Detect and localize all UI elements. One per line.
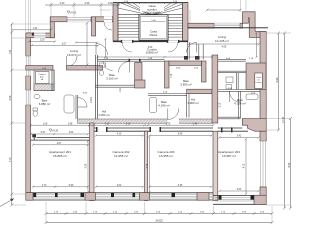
top-right step wall (242, 12, 265, 38)
svg-text:2.62: 2.62 (117, 185, 122, 187)
svg-text:3.42: 3.42 (237, 136, 242, 138)
svg-text:4.35: 4.35 (178, 185, 183, 187)
svg-text:3.850 m²: 3.850 m² (180, 83, 191, 87)
dimension chain bottom 1 (45, 212, 274, 215)
vertical dim room 204 (245, 138, 247, 195)
washbasin baie left (34, 94, 40, 99)
svg-text:0.97: 0.97 (41, 132, 46, 134)
dimension chain right vertical 1 (277, 32, 280, 132)
dim row above 201 wall (30, 133, 89, 135)
svg-text:6.880 m²: 6.880 m² (39, 102, 50, 106)
label curte de lumina (256, 76, 263, 84)
svg-text:liftului: liftului (150, 33, 158, 37)
level marker corridor (67, 11, 77, 15)
svg-text:13.987 m²: 13.987 m² (222, 154, 236, 158)
svg-text:8.52: 8.52 (288, 162, 291, 167)
rotated dim text walls (86, 73, 246, 168)
wall under left living east part (67, 66, 103, 71)
svg-text:3.163 m²: 3.163 m² (106, 77, 117, 81)
stair block top wall (113, 2, 188, 4)
room label living left (67, 49, 81, 57)
window in top wall right wing (214, 23, 240, 29)
center pink wall south (187, 89, 212, 94)
room label coridor (146, 47, 158, 54)
elevator core box (139, 15, 168, 41)
wall baie-hol left (76, 95, 78, 119)
room label camera 202 (112, 150, 129, 158)
dimension texts bottom (54, 211, 265, 222)
room label apartament 201 (49, 150, 71, 158)
window right wall (260, 141, 267, 187)
right wing room divider (237, 73, 239, 90)
svg-text:2.15: 2.15 (220, 102, 222, 107)
window left wall upper (25, 56, 31, 76)
svg-text:1.40: 1.40 (193, 123, 198, 125)
stair block left wall (113, 3, 118, 42)
lower rooms top wall 201 (31, 134, 90, 140)
svg-text:3.07: 3.07 (62, 42, 67, 45)
stair outer boundary (118, 3, 183, 41)
window jamb step wall (32, 33, 34, 36)
bathtub baie left (64, 95, 74, 113)
wc baie left (33, 108, 38, 116)
svg-text:16.865 m²: 16.865 m² (53, 154, 67, 158)
stair treads right flight (168, 15, 183, 41)
wall right of deb (52, 70, 54, 91)
vertical dim room 203 left (148, 136, 150, 193)
vestibule door jambs (184, 56, 200, 60)
door arc lower center (168, 109, 179, 120)
svg-text:5.26: 5.26 (147, 163, 149, 168)
svg-text:scarilor: scarilor (147, 8, 157, 12)
window jamb blocks bottom (33, 193, 254, 200)
wall under left living pink part (26, 66, 53, 71)
svg-text:2.20: 2.20 (60, 2, 65, 5)
svg-text:5.45: 5.45 (178, 134, 183, 136)
svg-text:8.885 m²: 8.885 m² (146, 51, 158, 55)
room label baie left (39, 99, 50, 107)
svg-text:7.10: 7.10 (9, 157, 12, 162)
bottom wall pier right corner (254, 195, 266, 204)
wc baie 3163 (100, 70, 104, 75)
dimension chain bottom 2 (45, 221, 274, 224)
svg-text:14.955 m²: 14.955 m² (114, 154, 128, 158)
door gap corridor bottom (168, 119, 180, 124)
right wing hall wall (218, 71, 246, 73)
door gap top wall near stair (104, 17, 112, 22)
room label apartament 204 (218, 150, 240, 158)
dim line bottom room 203 (148, 186, 212, 188)
room label hol left (98, 110, 109, 118)
svg-text:0.13: 0.13 (126, 123, 131, 125)
dimension chain right vertical 3 (289, 117, 292, 210)
extension lines right (266, 33, 291, 205)
wall 201-202 (90, 123, 95, 201)
svg-text:+9.35: +9.35 (52, 130, 59, 133)
svg-text:1.91: 1.91 (120, 87, 122, 92)
bottom wall pier 203 (197, 193, 209, 201)
room label baie 4240 (158, 100, 169, 108)
bathtub baie 4240 (150, 98, 157, 113)
top wall left wing (50, 17, 113, 22)
room label baie center 3850 (180, 79, 191, 87)
svg-text:16.955 m²: 16.955 m² (159, 154, 173, 158)
svg-text:14.625: 14.625 (155, 220, 163, 223)
light shaft curte de lumina (255, 73, 263, 89)
extra jamb blocks bottom wall (55, 193, 135, 198)
svg-text:4.62: 4.62 (237, 189, 242, 191)
stair treads left flight (118, 15, 139, 41)
svg-text:16.070 m²: 16.070 m² (67, 53, 81, 57)
dim line inside living left (30, 44, 100, 47)
door arc baie left (78, 98, 87, 108)
svg-text:2.13: 2.13 (105, 123, 110, 125)
svg-text:4.164 m²: 4.164 m² (234, 102, 245, 106)
dim vertical near living east wall (104, 38, 106, 58)
dimension texts top (60, 2, 113, 5)
extra ticks chain bottom 1 (65, 212, 256, 215)
right exterior wall lower (260, 187, 266, 205)
wall 202-203 (144, 131, 147, 200)
sink baie 3163 (100, 63, 106, 67)
top-left step wall vertical (50, 17, 54, 38)
room label camera 203 (157, 150, 174, 158)
svg-text:1.76: 1.76 (171, 73, 173, 78)
right exterior wall (260, 31, 266, 141)
svg-text:2.73: 2.73 (42, 185, 47, 187)
dim line under step band (28, 40, 56, 42)
svg-text:9.68: 9.68 (276, 77, 279, 82)
corridor south wall left (98, 59, 165, 62)
corridor south wall right wing (218, 60, 246, 62)
vertical dim room 201 right (87, 140, 89, 193)
svg-text:1.09: 1.09 (43, 123, 48, 125)
dim line bottom room 202 (95, 186, 144, 188)
wall 203-204 (213, 131, 218, 200)
bottom wall right wing lines (213, 196, 266, 205)
dimension chain left vertical (10, 23, 13, 207)
svg-text:4.15: 4.15 (244, 163, 246, 168)
dimension chain top (45, 3, 120, 6)
svg-text:17.38: 17.38 (282, 116, 285, 123)
door arc corridor right (187, 43, 197, 53)
corridor entry door arc (104, 62, 113, 71)
svg-text:4.87: 4.87 (57, 143, 62, 145)
room label living right (215, 35, 229, 43)
dim line room 201 (32, 144, 89, 146)
svg-text:1.98: 1.98 (68, 123, 73, 125)
top-left step wall horizontal (26, 33, 55, 38)
bottom wall pier center (139, 193, 149, 201)
wall right wing mid (218, 90, 260, 92)
wall baie4240 north (148, 94, 187, 96)
bottom wall lines (26, 193, 213, 200)
level marker room201 (49, 129, 59, 133)
svg-text:4.05: 4.05 (222, 46, 227, 49)
masonry zone light well (246, 63, 266, 89)
svg-text:2.009: 2.009 (91, 96, 93, 102)
svg-text:5.26: 5.26 (86, 163, 88, 168)
svg-text:4.10: 4.10 (117, 134, 122, 136)
door arc corridor to living (96, 44, 108, 56)
vestibule walls right of corridor (188, 42, 204, 60)
wall face extension line right (188, 27, 268, 29)
door arc baie 3163 (119, 62, 130, 73)
dim line living east (75, 41, 98, 43)
lower rooms top wall center (94, 128, 213, 131)
dim vertical right living (255, 32, 257, 58)
wall west of baie3163 (95, 55, 97, 119)
bottom wall pier 201-202 (85, 193, 96, 201)
room label hol center (187, 98, 198, 106)
dim vertical living left (86, 22, 89, 67)
living east wall pink upper (92, 17, 96, 36)
svg-text:5.26: 5.26 (9, 95, 12, 100)
dim line to step corner (12, 28, 53, 31)
dim texts above stair (124, 1, 178, 3)
corridor bottom hatched wall (78, 119, 213, 123)
label casa scarilor (140, 4, 164, 12)
extension lines top right (100, 0, 247, 23)
shaft pink center (135, 62, 142, 85)
door arc top wall gap (104, 22, 112, 30)
right wing fixtures (226, 77, 233, 89)
corridor dim line (96, 56, 213, 58)
interior dimension texts row (43, 123, 198, 125)
door gaps center wall (96, 127, 161, 132)
stair bottom wall (113, 40, 188, 43)
stair block right wall (183, 3, 189, 42)
svg-text:2.75: 2.75 (166, 123, 171, 125)
svg-text:1.960 m²: 1.960 m² (187, 101, 198, 105)
door arc right wing (230, 92, 241, 103)
svg-text:4.054 m²: 4.054 m² (98, 113, 109, 117)
rotated texts left chain (9, 49, 12, 162)
svg-text:4.240 m²: 4.240 m² (158, 104, 169, 108)
svg-text:2.62: 2.62 (69, 132, 74, 134)
dim line right wing upper (206, 9, 242, 12)
interior dimension row above lower walls (30, 124, 215, 126)
svg-text:+9.35: +9.35 (70, 12, 77, 15)
top wall right wing (188, 23, 243, 28)
room label baie center-left (106, 73, 117, 81)
svg-text:14.435 m²: 14.435 m² (215, 39, 229, 43)
tub baie right (246, 94, 258, 100)
svg-text:0.90: 0.90 (69, 185, 74, 187)
bottom wall pier left corner (26, 193, 33, 201)
extension lines top left wall (26, 0, 101, 33)
svg-text:1.34: 1.34 (9, 49, 12, 54)
pink wall right-center vertical (212, 55, 218, 123)
rotated texts right chains (276, 77, 291, 167)
deb tiny text (38, 74, 46, 81)
stair fan top flight (118, 3, 183, 16)
small room deb left (34, 70, 54, 91)
dim line bottom room 201 (32, 186, 89, 188)
room label baie right (234, 98, 245, 106)
door opening living left (67, 56, 78, 67)
leader arrow bottom left (0, 199, 14, 207)
wall hol east (187, 94, 189, 118)
extension lines bottom (46, 202, 272, 223)
svg-text:lumina: lumina (256, 82, 263, 84)
left exterior wall (26, 33, 31, 193)
dim line room 204 (218, 136, 259, 138)
dim line bottom room 204 (218, 190, 259, 192)
wall 204 top west part (218, 127, 248, 132)
svg-text:1.04: 1.04 (108, 2, 113, 5)
svg-text:2.56: 2.56 (85, 2, 90, 5)
extension lines left (12, 24, 50, 205)
lower rooms top wall 204 pink (242, 119, 266, 132)
dimension chain right vertical 2 (283, 32, 286, 210)
dim line inside living right (188, 43, 261, 46)
label casa liftului (150, 30, 158, 38)
dim line room 202 (95, 134, 144, 136)
door arcs at stair gaps (122, 43, 177, 53)
svg-text:1.50: 1.50 (40, 40, 45, 42)
center pink wall west (165, 61, 170, 88)
window left wall lower (25, 90, 31, 105)
partition right band (218, 91, 241, 119)
svg-text:1.34: 1.34 (33, 28, 38, 30)
wall under baie 3163 (95, 85, 134, 87)
deb hatched bottom (34, 84, 54, 91)
center pink wall top (169, 61, 202, 65)
center pink wall east (202, 61, 207, 82)
dim line room 203 (148, 134, 212, 136)
window in top wall left wing (67, 17, 91, 23)
small dim texts middle band (42, 58, 256, 95)
window in step wall (34, 33, 45, 38)
